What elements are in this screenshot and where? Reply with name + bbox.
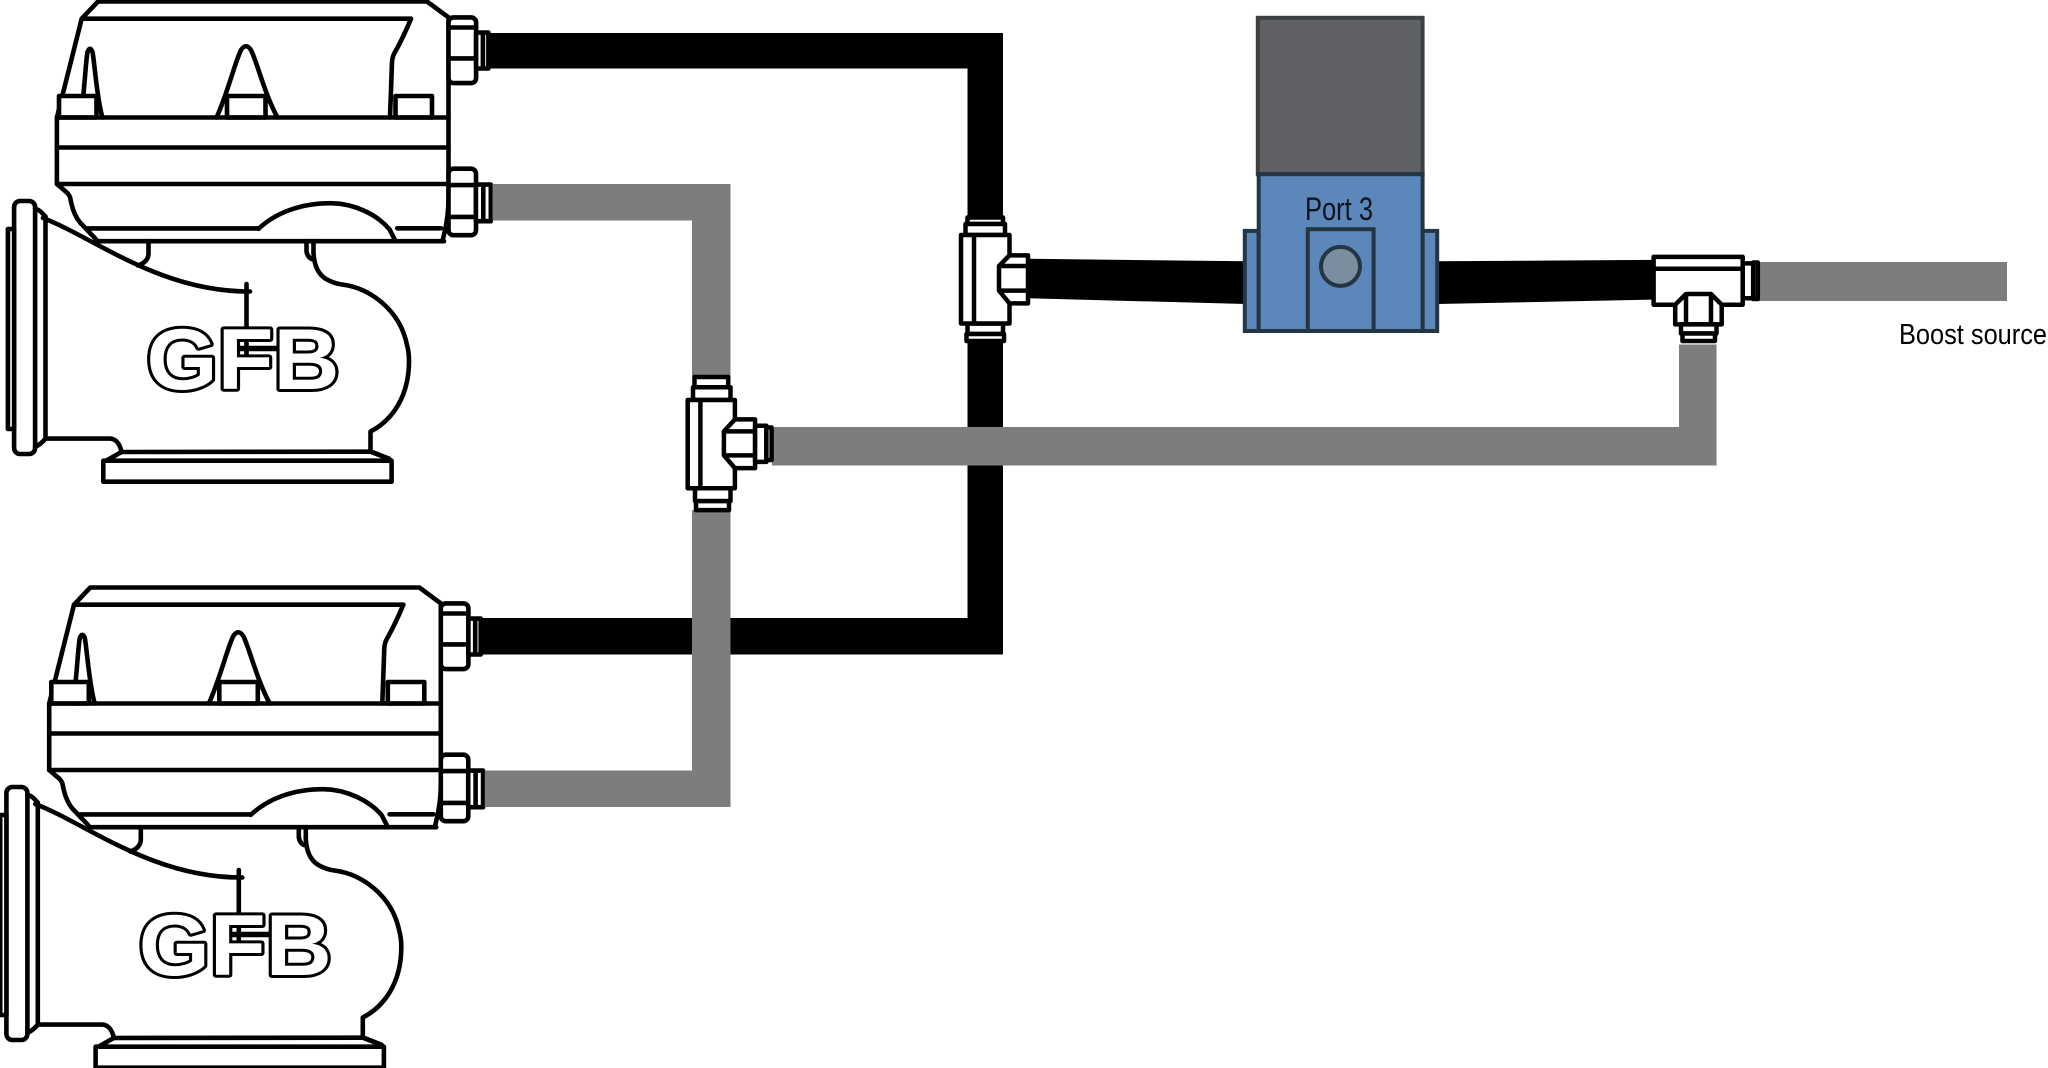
tee T2 (grey hose tee)	[688, 377, 772, 510]
hose grey: tee T2 down to bottom wastegate side port	[485, 510, 731, 807]
hose grey: top wastegate side port to tee T2	[493, 184, 731, 377]
svg-text:Port 3: Port 3	[1305, 191, 1373, 227]
solenoid valve body	[1245, 174, 1437, 331]
wastegate WG2 (bottom)	[0, 588, 483, 1068]
hose black: tee T1 to solenoid port	[1028, 259, 1246, 304]
svg-text:Boost source: Boost source	[1899, 319, 2047, 351]
hose black: solenoid to tee T3	[1437, 260, 1654, 304]
hose black: top wastegate top port to tee T1	[483, 33, 1003, 655]
hose grey: tee T3 to boost source	[1759, 262, 2007, 301]
hose grey: tee T2 branch to tee T3 branch	[772, 345, 1717, 466]
solenoid coil	[1258, 18, 1423, 174]
tee T3 (boost source tee)	[1654, 257, 1758, 341]
wastegate WG1 (top)	[8, 2, 491, 482]
tee T1 (black hose tee)	[961, 218, 1028, 342]
